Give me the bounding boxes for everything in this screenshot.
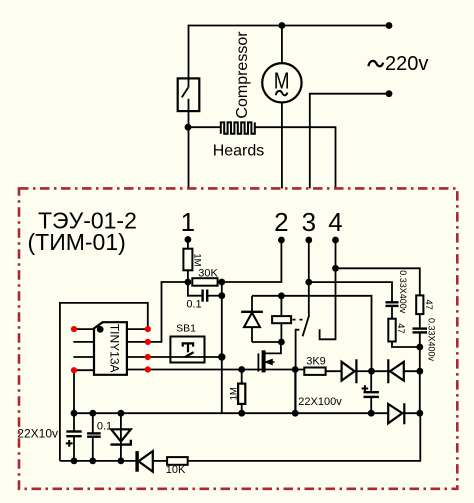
- thermal switch blade: [188, 78, 190, 87]
- svg-text:(ТИМ-01): (ТИМ-01): [28, 229, 126, 255]
- relay linkage dashes: [293, 319, 303, 321]
- wire node B to terminal 2: [222, 240, 282, 282]
- wire bottom rail left: [60, 460, 136, 462]
- relay K1 coil box: [272, 316, 291, 323]
- transistor Q1 drain lead: [265, 342, 281, 353]
- svg-text:M: M: [274, 68, 290, 94]
- red pin dot 3R: [145, 354, 151, 360]
- pin 2L stub: [73, 341, 94, 343]
- node B 30K right junction: [218, 279, 225, 286]
- svg-text:TINY13A: TINY13A: [108, 324, 122, 373]
- wire pin1R up and around to bottom-left rail: [60, 303, 148, 461]
- diode VD flyback triangle: [244, 313, 260, 328]
- wire left drop to thermal switch: [188, 25, 190, 79]
- svg-text:SB1: SB1: [176, 323, 196, 335]
- svg-text:3: 3: [302, 207, 316, 237]
- svg-text:0.1: 0.1: [97, 421, 112, 433]
- wire terminal3 to left snubber: [309, 282, 392, 302]
- wire vertical net B down to bottom rail: [221, 282, 223, 413]
- wire node A left to pin2 riser: [148, 282, 188, 342]
- zener VD2 leads: [120, 413, 122, 444]
- svg-text:47: 47: [395, 323, 406, 334]
- wire cap left to 47 left: [391, 306, 393, 319]
- diode D3: [388, 403, 404, 424]
- node C cap right junction: [218, 292, 225, 299]
- wire 220v phase2: [310, 94, 389, 189]
- svg-text:22X100v: 22X100v: [298, 396, 342, 408]
- node source rail junction: [292, 366, 299, 373]
- capacitor 22X10v leads: [73, 413, 75, 431]
- svg-text:Heards: Heards: [213, 143, 265, 160]
- svg-text:2: 2: [274, 207, 288, 237]
- wire heater left lead: [188, 126, 221, 128]
- svg-text:1M: 1M: [229, 387, 240, 400]
- wire right rail down: [419, 347, 421, 413]
- wire flyback bottom to drain node: [252, 341, 281, 343]
- label ~220v: [368, 61, 383, 66]
- diode VD flyback cathode bar: [241, 311, 263, 313]
- wire 30K right to node B: [218, 281, 222, 283]
- capacitor 0.1 plates: [201, 290, 203, 302]
- wire D1 to node D: [356, 370, 371, 372]
- wire switch contact drop: [294, 370, 296, 414]
- wire node A down to cap 0.1: [188, 282, 203, 296]
- svg-text:10K: 10K: [166, 464, 186, 476]
- node top-right terminal: [386, 22, 393, 29]
- node D diode junction: [368, 368, 375, 375]
- capacitor 0.33X400v right plates: [413, 327, 428, 329]
- relay K1 coil top lead: [280, 296, 282, 316]
- node gate 1M junction: [238, 366, 245, 373]
- node cap22X10 top: [71, 410, 78, 417]
- pin 2R stub: [127, 341, 148, 343]
- button SB1 box: [170, 337, 204, 363]
- label motor tilde: [276, 91, 288, 95]
- node cap22X10 bottom: [71, 458, 78, 465]
- node A 1M bottom junction: [185, 279, 192, 286]
- capacitor 0.1 bottom leads: [92, 413, 94, 433]
- svg-text:220v: 220v: [385, 53, 428, 75]
- wire 1M gate leads: [241, 370, 243, 384]
- relay switch left contact: [296, 330, 300, 414]
- node contact rail junction: [292, 410, 299, 417]
- node terminal4 branch junction: [332, 265, 339, 272]
- capacitor 0.1 bottom plates: [87, 432, 101, 434]
- node phase2 terminal: [386, 90, 393, 97]
- wire terminal 3 drop to switch blade: [308, 240, 310, 315]
- label plus 22X10v: [66, 440, 73, 447]
- relay K1 coil bottom lead: [280, 323, 282, 342]
- node terminal 4: [332, 237, 339, 244]
- heater coil Heards: [221, 122, 255, 133]
- transistor Q1 channel bar: [262, 350, 266, 372]
- diode D2 reversed: [388, 359, 404, 383]
- node cap0.1 top: [89, 410, 96, 417]
- pin 1R stub: [127, 328, 148, 330]
- svg-text:0.33X400v: 0.33X400v: [427, 318, 437, 362]
- wire mid rail: [74, 412, 420, 414]
- wire bottom rail right: [188, 413, 421, 461]
- wire D2 to right rail: [404, 370, 420, 372]
- pin 4L stub: [74, 369, 94, 371]
- resistor 1M gate pulldown: [238, 384, 245, 404]
- svg-text:47: 47: [423, 299, 434, 310]
- motor M1 bottom lead: [281, 103, 283, 189]
- svg-text:Compressor: Compressor: [234, 31, 251, 119]
- capacitor 22X10v plates: [66, 430, 81, 432]
- relay switch right contact from terminal 4: [320, 240, 336, 339]
- pin 3L stub: [73, 356, 94, 358]
- wire R1M to node A: [187, 270, 189, 282]
- node cap bottom rail junction: [368, 410, 375, 417]
- wire 47 to cap right: [419, 314, 421, 329]
- red pin dot 2R: [145, 339, 151, 345]
- pin 1L stub: [74, 328, 94, 330]
- diode VD flyback bottom lead: [251, 327, 253, 342]
- red pin dot 1R: [145, 326, 151, 332]
- resistor 30K: [192, 278, 217, 286]
- zener VD2 triangle: [111, 429, 131, 441]
- wire node D to D2: [372, 370, 389, 372]
- node terminal 2: [278, 237, 285, 244]
- thermal switch box: [178, 78, 200, 111]
- node right rail bottom junction: [416, 410, 423, 417]
- capacitor C 22X100v leads: [370, 371, 372, 392]
- node terminal 3: [305, 237, 312, 244]
- node drain junction: [278, 339, 285, 346]
- wire 3K9 to D1: [326, 370, 342, 372]
- node 1M rail junction: [238, 410, 245, 417]
- resistor 47 right: [416, 295, 423, 314]
- diode D4 triangle: [139, 451, 153, 472]
- svg-text:1M: 1M: [191, 253, 202, 266]
- wire 220v top line: [189, 25, 390, 27]
- wire pin4R gate rail to 3K9: [148, 369, 304, 371]
- node motor-top junction: [279, 22, 286, 29]
- IC U1 pin1 marker: [97, 326, 104, 333]
- node zener bottom: [118, 458, 125, 465]
- svg-text:22X10v: 22X10v: [17, 427, 58, 441]
- motor M1 top lead: [281, 26, 283, 64]
- resistor R 1M top: [183, 249, 192, 271]
- button SB1 actuator: [183, 343, 194, 357]
- red pin dot 4R: [145, 366, 151, 372]
- capacitor C 22X100v plates: [364, 391, 379, 393]
- resistor 10K: [167, 457, 188, 465]
- wire pin3R to SB1 node: [148, 356, 222, 358]
- svg-text:30K: 30K: [198, 268, 218, 280]
- red dash-dot enclosure border: [19, 188, 457, 488]
- svg-text:3K9: 3K9: [306, 356, 326, 368]
- transistor Q1 gate bar: [257, 353, 259, 371]
- wire heater right lead to terminal 4 drop: [255, 127, 336, 188]
- svg-text:0.1: 0.1: [186, 299, 201, 311]
- resistor 47 left: [388, 319, 395, 342]
- relay switch blade: [303, 315, 310, 337]
- diode D1: [342, 359, 357, 383]
- IC U1 TINY13A body: [94, 322, 127, 375]
- node relay top junction: [278, 292, 285, 299]
- svg-text:0.33X400v: 0.33X400v: [398, 270, 408, 314]
- diode VD flyback branch top lead: [251, 296, 253, 312]
- wire cap right to node E: [419, 332, 421, 347]
- node SB1 right junction: [218, 353, 225, 360]
- resistor 3K9: [304, 368, 325, 375]
- red pin dot 1L: [71, 326, 77, 332]
- diode D4 cathode bar: [135, 451, 138, 472]
- node terminal 1: [185, 236, 192, 243]
- node thermal-heater junction: [185, 124, 192, 131]
- pin 3R stub: [127, 356, 148, 358]
- label plus 22X100v: [362, 385, 369, 392]
- pin 4R stub: [127, 369, 148, 371]
- wire relay top rail: [252, 296, 372, 371]
- zener VD2 bar: [110, 440, 130, 445]
- wire terminal1 to R1: [187, 240, 189, 249]
- wire 47 left to node E: [392, 342, 420, 348]
- node right rail diode junction: [416, 368, 423, 375]
- wire pin4L down to rail: [73, 370, 75, 413]
- node zener top: [118, 410, 125, 417]
- node E snubber bottom junction: [416, 344, 423, 351]
- motor M1 circle: [262, 63, 301, 102]
- capacitor 0.33X400v left plates: [386, 301, 399, 303]
- wire terminal4 to right snubber: [336, 268, 420, 295]
- red pin dot 4L: [71, 367, 77, 373]
- wire cap 0.1 to node C: [207, 295, 222, 297]
- node cap0.1 bottom: [89, 458, 96, 465]
- svg-text:1: 1: [181, 207, 195, 237]
- node terminal3 branch junction: [305, 279, 312, 286]
- svg-text:4: 4: [328, 207, 342, 237]
- transistor Q1 source arrow: [266, 360, 275, 365]
- wire D4 to 10K: [153, 460, 167, 462]
